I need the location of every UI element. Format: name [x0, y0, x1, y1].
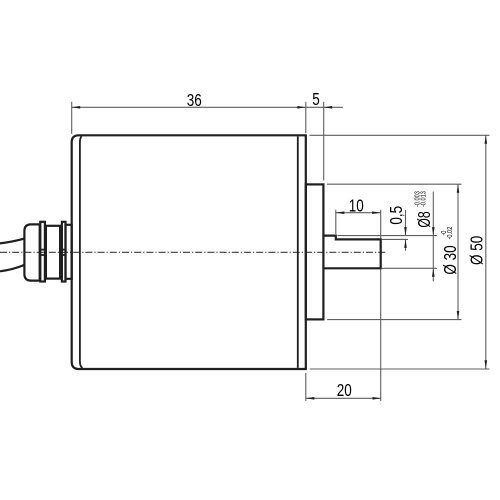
dimension 0,5 line [405, 210, 407, 236]
dimension Ø30 line [457, 184, 459, 319]
ext line boss top [327, 183, 462, 185]
svg-text:10: 10 [349, 197, 364, 216]
cable wire [0, 239, 24, 244]
arrow 20 left [306, 397, 315, 400]
svg-text:20: 20 [337, 381, 352, 400]
svg-text:5: 5 [312, 90, 320, 109]
dimension Ø50 line [485, 135, 487, 368]
arrow 36 right / 5 left [297, 106, 306, 109]
ext line left of 36 [71, 102, 73, 134]
dimension 36 / 5 line [72, 106, 343, 108]
ext line body top [310, 134, 490, 136]
washer 2 center marks [61, 249, 66, 251]
dimension 20 line [306, 397, 381, 399]
arrow 36 left [72, 106, 81, 109]
label Ø30 tolerance [440, 226, 454, 239]
ext line body right edge [305, 102, 307, 133]
ext line 10 left [335, 210, 337, 234]
motor body (Ø50 housing) [72, 135, 306, 369]
ext line body bottom [310, 368, 490, 370]
label Ø8 tolerance [414, 191, 428, 207]
ext line boss bottom [327, 319, 461, 321]
svg-text:-0.02: -0.02 [446, 226, 454, 239]
arrow 10 left [336, 211, 345, 214]
arrow 10 right [372, 211, 381, 214]
body left joint line [80, 136, 83, 368]
arrow Ø30 top [457, 184, 460, 193]
arrow 5 right [324, 106, 333, 109]
cable gland dome cap [24, 224, 39, 280]
svg-text:Ø 50: Ø 50 [468, 236, 487, 265]
arrow Ø30 bottom [457, 311, 460, 320]
gland neck [66, 225, 72, 279]
gland washer 1 [40, 222, 45, 282]
dimension 10 line [336, 212, 381, 214]
ext line shaft end lower [380, 269, 382, 401]
ext line step top (0.5 / Ø8) [338, 235, 437, 237]
svg-text:Ø8: Ø8 [415, 211, 435, 227]
svg-text:0,5: 0,5 [387, 206, 406, 225]
dimension Ø8 line [432, 192, 434, 282]
boss (Ø30 flange) [306, 184, 324, 319]
gland washer 2 [62, 222, 66, 282]
ext line boss right edge [323, 102, 325, 181]
ext line 20 left [305, 373, 307, 401]
arrow 20 right [373, 397, 382, 400]
centerline (motor axis) [0, 251, 387, 253]
ext line shaft top (0.5) [382, 238, 408, 240]
arrow Ø8 bottom [432, 268, 435, 277]
arrow 0,5 top [404, 227, 407, 236]
gland nut [46, 226, 60, 279]
arrow 0,5 bottom [404, 239, 407, 248]
svg-text:36: 36 [187, 91, 202, 110]
body right joint line [297, 136, 299, 368]
arrow Ø50 bottom [485, 360, 488, 369]
svg-text:-0.013: -0.013 [420, 191, 428, 207]
arrow Ø8 top [432, 227, 435, 236]
ext line shaft end upper [380, 210, 382, 239]
ext line shaft bottom (Ø8) [382, 267, 437, 269]
arrow Ø50 top [485, 135, 488, 144]
washer 1 center marks [40, 249, 46, 251]
shaft (Ø8 with 0.5 step) [323, 236, 380, 269]
svg-text:Ø 30: Ø 30 [441, 245, 460, 274]
